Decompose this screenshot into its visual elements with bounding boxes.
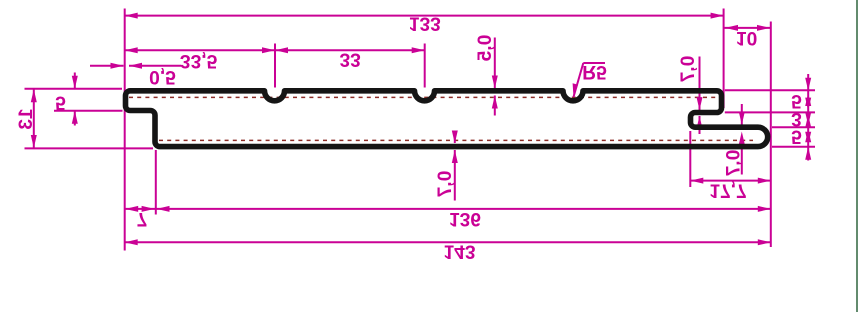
ext line left end vertical bbox=[124, 9, 126, 251]
dashed hidden line top bbox=[129, 96, 719, 98]
ext line bottom edge left bbox=[25, 147, 154, 149]
green page edge right bbox=[856, 0, 858, 312]
ext line step left bbox=[54, 110, 123, 112]
svg-text:5: 5 bbox=[55, 91, 66, 112]
dim 13 left bbox=[33, 89, 35, 149]
ext line top lap corner bbox=[723, 9, 725, 109]
dim 5-3-5 chain right bbox=[807, 74, 809, 161]
svg-text:143: 143 bbox=[443, 240, 475, 261]
dim 133 bbox=[125, 15, 724, 17]
dim 5 left step bbox=[74, 73, 76, 89]
ext line lip top right bbox=[772, 126, 815, 128]
leader R5 bbox=[574, 63, 584, 97]
svg-text:5: 5 bbox=[791, 125, 802, 146]
svg-text:R5: R5 bbox=[582, 61, 607, 82]
svg-text:0,5: 0,5 bbox=[149, 66, 176, 87]
ext line groove 2 bbox=[424, 44, 426, 88]
svg-text:33: 33 bbox=[340, 48, 361, 69]
dashed hidden line bottom bbox=[159, 139, 753, 141]
svg-text:133: 133 bbox=[409, 13, 441, 34]
dim 17,7 bbox=[690, 180, 771, 182]
svg-text:13: 13 bbox=[16, 108, 37, 129]
ext line bottom-left corner bbox=[155, 150, 157, 215]
dim 0,5 left bbox=[90, 65, 124, 67]
dim 33,5 bbox=[125, 49, 275, 51]
dim 33 bbox=[275, 49, 425, 51]
svg-text:136: 136 bbox=[449, 208, 481, 229]
svg-text:33,5: 33,5 bbox=[180, 50, 218, 71]
svg-text:0,7: 0,7 bbox=[724, 150, 745, 177]
svg-text:17,7: 17,7 bbox=[709, 180, 746, 201]
dim 0,7 tongue lip bbox=[741, 104, 743, 125]
ext line groove 1 bbox=[274, 44, 276, 88]
svg-text:5: 5 bbox=[791, 90, 802, 111]
dim 0,7 bottom bbox=[454, 131, 456, 143]
dim 7 bottom-left bbox=[125, 208, 156, 210]
profile outline (board cross-section) bbox=[126, 91, 768, 147]
svg-text:0,7: 0,7 bbox=[678, 56, 699, 83]
ext line top edge left bbox=[25, 88, 123, 90]
svg-text:10: 10 bbox=[736, 27, 757, 48]
dim 0,7 top shoulder bbox=[699, 57, 701, 111]
dim 0,5 coating top bbox=[494, 38, 496, 89]
dim 136 bbox=[156, 208, 771, 210]
svg-text:0,5: 0,5 bbox=[475, 35, 496, 62]
ext line tongue tip bbox=[770, 22, 772, 248]
ext line tongue shoulder bbox=[689, 131, 691, 187]
ext line shoulder right bbox=[725, 111, 815, 113]
svg-text:0,7: 0,7 bbox=[435, 171, 456, 198]
ext line bottom edge right bbox=[772, 146, 815, 148]
dim 10 bbox=[724, 27, 771, 29]
svg-text:7: 7 bbox=[137, 208, 148, 229]
dim 143 bbox=[125, 241, 771, 243]
ext line top edge right bbox=[725, 89, 815, 91]
